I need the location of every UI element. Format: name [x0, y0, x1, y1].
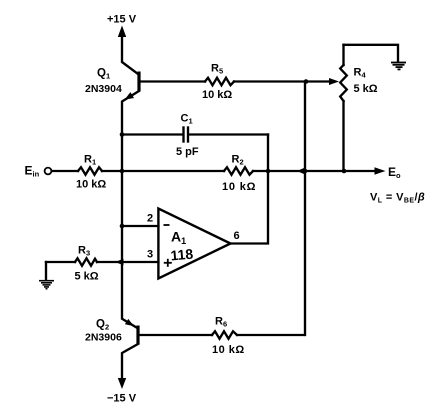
svg-text:118: 118 — [170, 246, 194, 264]
svg-text:10 kΩ: 10 kΩ — [222, 181, 256, 193]
svg-text:6: 6 — [234, 230, 240, 242]
svg-text:2: 2 — [147, 213, 153, 225]
svg-text:10 kΩ: 10 kΩ — [76, 179, 106, 191]
svg-text:2N3904: 2N3904 — [85, 83, 122, 95]
svg-text:+15 V: +15 V — [107, 14, 137, 26]
svg-text:5 pF: 5 pF — [176, 146, 199, 158]
svg-text:3: 3 — [147, 249, 153, 261]
svg-text:−15 V: −15 V — [107, 393, 137, 405]
svg-text:5 kΩ: 5 kΩ — [75, 271, 99, 283]
svg-text:5 kΩ: 5 kΩ — [354, 83, 378, 95]
svg-text:2N3906: 2N3906 — [85, 332, 122, 344]
svg-text:10 kΩ: 10 kΩ — [212, 344, 245, 356]
svg-text:10 kΩ: 10 kΩ — [202, 89, 232, 101]
